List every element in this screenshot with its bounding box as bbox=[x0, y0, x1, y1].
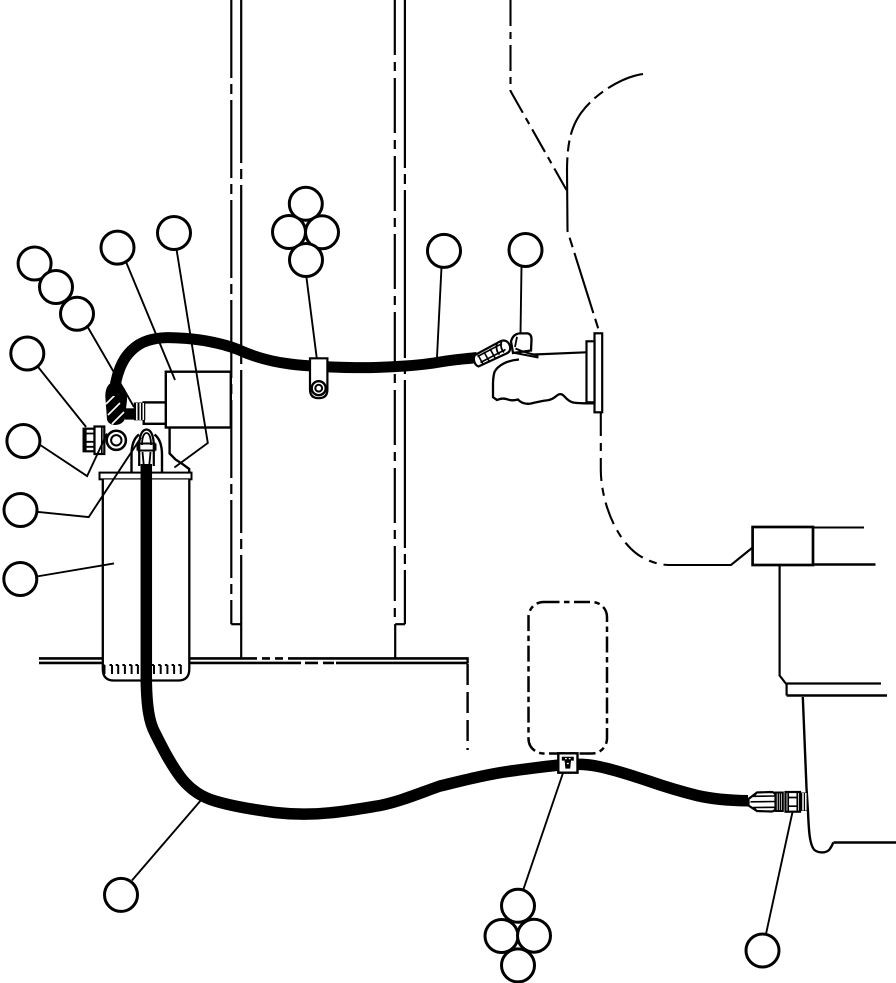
union collar band bbox=[776, 793, 783, 812]
leader from bottom circle to hose bbox=[132, 799, 202, 880]
leader from union fitting to circle bbox=[766, 812, 793, 934]
filter mounting plate bbox=[100, 473, 192, 480]
callout circle hose mid bbox=[428, 234, 461, 267]
hose clamp strap and bolt flange bbox=[310, 358, 327, 398]
top hose ferrule bbox=[474, 341, 510, 367]
union nut right bbox=[801, 793, 809, 812]
callout chain circle 1 bbox=[18, 247, 51, 280]
left column circle B bbox=[7, 425, 40, 458]
bottom ferrule inner lines bbox=[751, 796, 776, 808]
engine silhouette mid edge bbox=[567, 169, 599, 331]
right frame rail inner line to floor bbox=[394, 624, 396, 658]
bottom cluster bottom bbox=[502, 949, 535, 982]
banjo blob hatch bbox=[106, 393, 124, 424]
banjo horizontal bar bbox=[125, 408, 134, 419]
leader from left circle to nipple with elbow bbox=[37, 438, 141, 518]
filter nipple collar bbox=[138, 444, 156, 451]
leader from chain circle 3 to banjo bbox=[88, 328, 134, 408]
elbow neck to pump bbox=[513, 349, 539, 358]
callout cluster left bbox=[273, 216, 306, 249]
engine silhouette phantom upper-left bbox=[511, 0, 567, 190]
callout circle 4 bbox=[101, 231, 134, 264]
callout chain circle 3 bbox=[61, 297, 94, 330]
oil pan bottom line bbox=[834, 841, 896, 844]
hose clamp bolt outer bbox=[312, 381, 326, 395]
callout circle elbow bbox=[509, 234, 542, 267]
fuel filter body bbox=[103, 480, 190, 681]
fuel filter head rect bbox=[166, 372, 231, 428]
engine silhouette arc bbox=[567, 74, 643, 170]
elbow inner line bbox=[515, 337, 517, 347]
filter nipple inner taper bbox=[143, 452, 151, 468]
callout cluster top bbox=[289, 187, 322, 220]
pump mounting flange outer bbox=[595, 333, 603, 412]
right frame rail bottom jog bbox=[395, 623, 405, 625]
left column circle C bbox=[4, 494, 37, 527]
starter rectangle R1 bbox=[753, 527, 813, 565]
ferrule hatch bbox=[478, 349, 495, 364]
filter head bracket bbox=[170, 428, 190, 473]
nipple dome arch bbox=[132, 435, 163, 474]
leader from left circle to hex fitting bbox=[38, 366, 87, 427]
bottom right circle bbox=[746, 934, 779, 967]
bottom cluster left bbox=[485, 920, 518, 953]
leader from cluster to P-clamp bbox=[306, 276, 317, 358]
leader from circle to elbow fitting bbox=[521, 267, 522, 335]
line right of R1 top bbox=[813, 527, 864, 529]
top hose bbox=[114, 338, 477, 396]
leader from left circle to filter body bbox=[37, 563, 114, 576]
bottom hose ferrule bbox=[749, 792, 776, 812]
pump body top edge bbox=[534, 352, 586, 354]
ferrule inner lines bbox=[478, 344, 506, 363]
leader from circle 5 with elbow to nipple bbox=[174, 249, 207, 467]
union nut middle bbox=[786, 792, 801, 812]
fuel tank phantom rounded rect bbox=[529, 602, 608, 754]
left frame rail solid line bbox=[240, 0, 242, 659]
striped inlet fitting bbox=[134, 403, 146, 421]
leader from tank clamp to cluster bbox=[523, 773, 563, 891]
bottom cluster top bbox=[502, 889, 535, 922]
filter nipple inner dome bbox=[142, 433, 151, 445]
banjo ring inner bbox=[111, 435, 121, 445]
engine silhouette lower horizontal bbox=[669, 548, 753, 566]
pump body outline bbox=[493, 360, 594, 404]
leader from circle to top hose bbox=[437, 267, 442, 357]
banjo ring outer bbox=[107, 431, 126, 450]
tank clamp bolt shape bbox=[562, 757, 574, 769]
engine block lower edge bbox=[803, 697, 833, 852]
pump mounting flange inner bbox=[587, 341, 595, 402]
right frame rail solid line bbox=[404, 0, 406, 624]
floor bottom line bbox=[39, 662, 468, 665]
left frame rail phantom line bbox=[230, 0, 232, 624]
callout circle 5 bbox=[158, 217, 191, 250]
left frame rail bottom jog bbox=[231, 623, 241, 625]
callout chain circle 2 bbox=[40, 271, 73, 304]
line right of R1 bottom bbox=[813, 563, 876, 565]
leader from left circle to ring with elbow bbox=[40, 434, 108, 477]
ferrule collar bbox=[496, 341, 504, 355]
bottom hose bbox=[146, 464, 748, 814]
callout cluster right bbox=[306, 216, 339, 249]
ledge top line bbox=[787, 682, 881, 684]
hex fitting flats bbox=[84, 434, 95, 447]
hex fitting spacer bbox=[95, 427, 105, 455]
leader from circle 4 to bracket bbox=[126, 262, 175, 380]
hose clamp bolt inner bbox=[315, 385, 322, 392]
banjo elbow blob bbox=[105, 382, 127, 425]
callout cluster bottom bbox=[290, 244, 323, 277]
bottom cluster right bbox=[518, 919, 551, 952]
engine silhouette below flange bbox=[601, 413, 669, 565]
floor corner phantom drop bbox=[466, 657, 468, 663]
fuel filter head front block bbox=[144, 402, 166, 423]
hex fitting left dark edge bbox=[84, 429, 87, 451]
bottom left circle bbox=[105, 878, 138, 911]
left column circle D bbox=[4, 563, 37, 596]
filter nipple outer bbox=[139, 430, 154, 467]
bottom ferrule ticks bbox=[755, 793, 757, 811]
ledge vertical bbox=[785, 684, 787, 696]
tank hose clamp square bbox=[558, 753, 577, 772]
engine block edge below R1 bbox=[780, 565, 787, 685]
ledge bottom line bbox=[787, 694, 887, 697]
right frame rail phantom line bbox=[394, 0, 396, 624]
hex fitting left bbox=[84, 429, 95, 452]
elbow fitting block bbox=[511, 333, 532, 353]
left column circle A bbox=[11, 337, 44, 370]
floor top line bbox=[39, 657, 468, 660]
filter bottom rib ticks bbox=[102, 665, 181, 674]
